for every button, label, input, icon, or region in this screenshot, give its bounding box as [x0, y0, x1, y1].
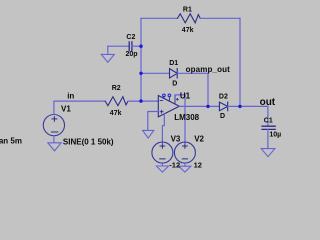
- capacitor C2: [129, 42, 132, 51]
- wire D1 right lead and drop to output: [177, 73, 208, 106]
- wire in line: [54, 100, 105, 102]
- wire R2 right lead: [128, 100, 158, 102]
- ground V1: [48, 136, 61, 151]
- ground V2: [179, 163, 191, 172]
- voltage source V1: [43, 115, 64, 136]
- wire V1 top stub: [53, 101, 55, 114]
- wire C2 left lead: [108, 45, 129, 47]
- svg-text:47k: 47k: [182, 27, 194, 34]
- svg-text:opamp_out: opamp_out: [186, 65, 231, 74]
- resistor R1: [178, 14, 201, 23]
- svg-text:D: D: [220, 113, 225, 120]
- svg-text:R2: R2: [112, 85, 121, 92]
- wire out down to C1: [267, 106, 269, 126]
- wire V+ to V2: [175, 95, 185, 142]
- junction feedback-out node: [238, 105, 241, 108]
- svg-text:12: 12: [194, 161, 202, 170]
- op-amp V+ pin stub: [175, 95, 178, 103]
- diode D2: [219, 102, 227, 111]
- resistor R2: [105, 97, 128, 106]
- ground C2: [101, 46, 114, 62]
- junction D1 node: [139, 72, 142, 75]
- svg-text:SINE(0 1 50k): SINE(0 1 50k): [63, 137, 114, 146]
- voltage source V3: [152, 142, 173, 163]
- svg-text:R1: R1: [183, 7, 192, 14]
- wire inverting-node vertical: [140, 18, 142, 101]
- diode D1: [170, 69, 178, 78]
- svg-text:an 5m: an 5m: [0, 136, 22, 145]
- svg-text:10µ: 10µ: [269, 131, 281, 138]
- svg-text:out: out: [260, 97, 276, 108]
- wire feedback right vertical: [239, 18, 241, 106]
- op-amp comp pin 8: [168, 94, 171, 97]
- wire noninverting input to ground: [148, 112, 159, 131]
- wire R1 right to corner: [200, 17, 240, 19]
- wire D2 to out corner: [228, 105, 268, 107]
- op-amp U1 triangle: [158, 96, 179, 117]
- svg-text:U1: U1: [180, 92, 191, 101]
- svg-text:V1: V1: [61, 105, 71, 114]
- wire V- to V3: [162, 114, 164, 142]
- svg-text:V2: V2: [194, 134, 204, 143]
- junction C2 node: [139, 45, 142, 48]
- svg-text:V3: V3: [171, 134, 181, 143]
- wire top feedback horizontal left: [141, 17, 178, 19]
- svg-text:D1: D1: [169, 60, 178, 67]
- op-amp comp pin 1: [163, 94, 166, 97]
- op-amp input markers: [160, 101, 163, 114]
- ground C1: [261, 149, 275, 157]
- svg-text:20p: 20p: [126, 51, 138, 58]
- wire D1 left lead: [141, 72, 170, 74]
- junction inverting input node: [139, 99, 142, 102]
- wire opamp output: [179, 105, 219, 107]
- svg-text:in: in: [67, 92, 74, 101]
- voltage source V2: [174, 142, 195, 163]
- svg-text:C1: C1: [264, 118, 273, 125]
- svg-text:D2: D2: [219, 94, 228, 101]
- svg-text:LM308: LM308: [174, 113, 199, 122]
- ground V3: [156, 163, 168, 172]
- wire C1 bottom stub: [267, 129, 269, 148]
- capacitor C1: [262, 126, 275, 129]
- junction opamp_out node: [206, 105, 209, 108]
- svg-text:D: D: [172, 81, 177, 88]
- ground noninverting input: [143, 130, 154, 138]
- svg-text:47k: 47k: [110, 110, 122, 117]
- wire C2 right lead: [132, 45, 141, 47]
- svg-text:C2: C2: [126, 34, 135, 41]
- svg-text:-12: -12: [169, 161, 180, 170]
